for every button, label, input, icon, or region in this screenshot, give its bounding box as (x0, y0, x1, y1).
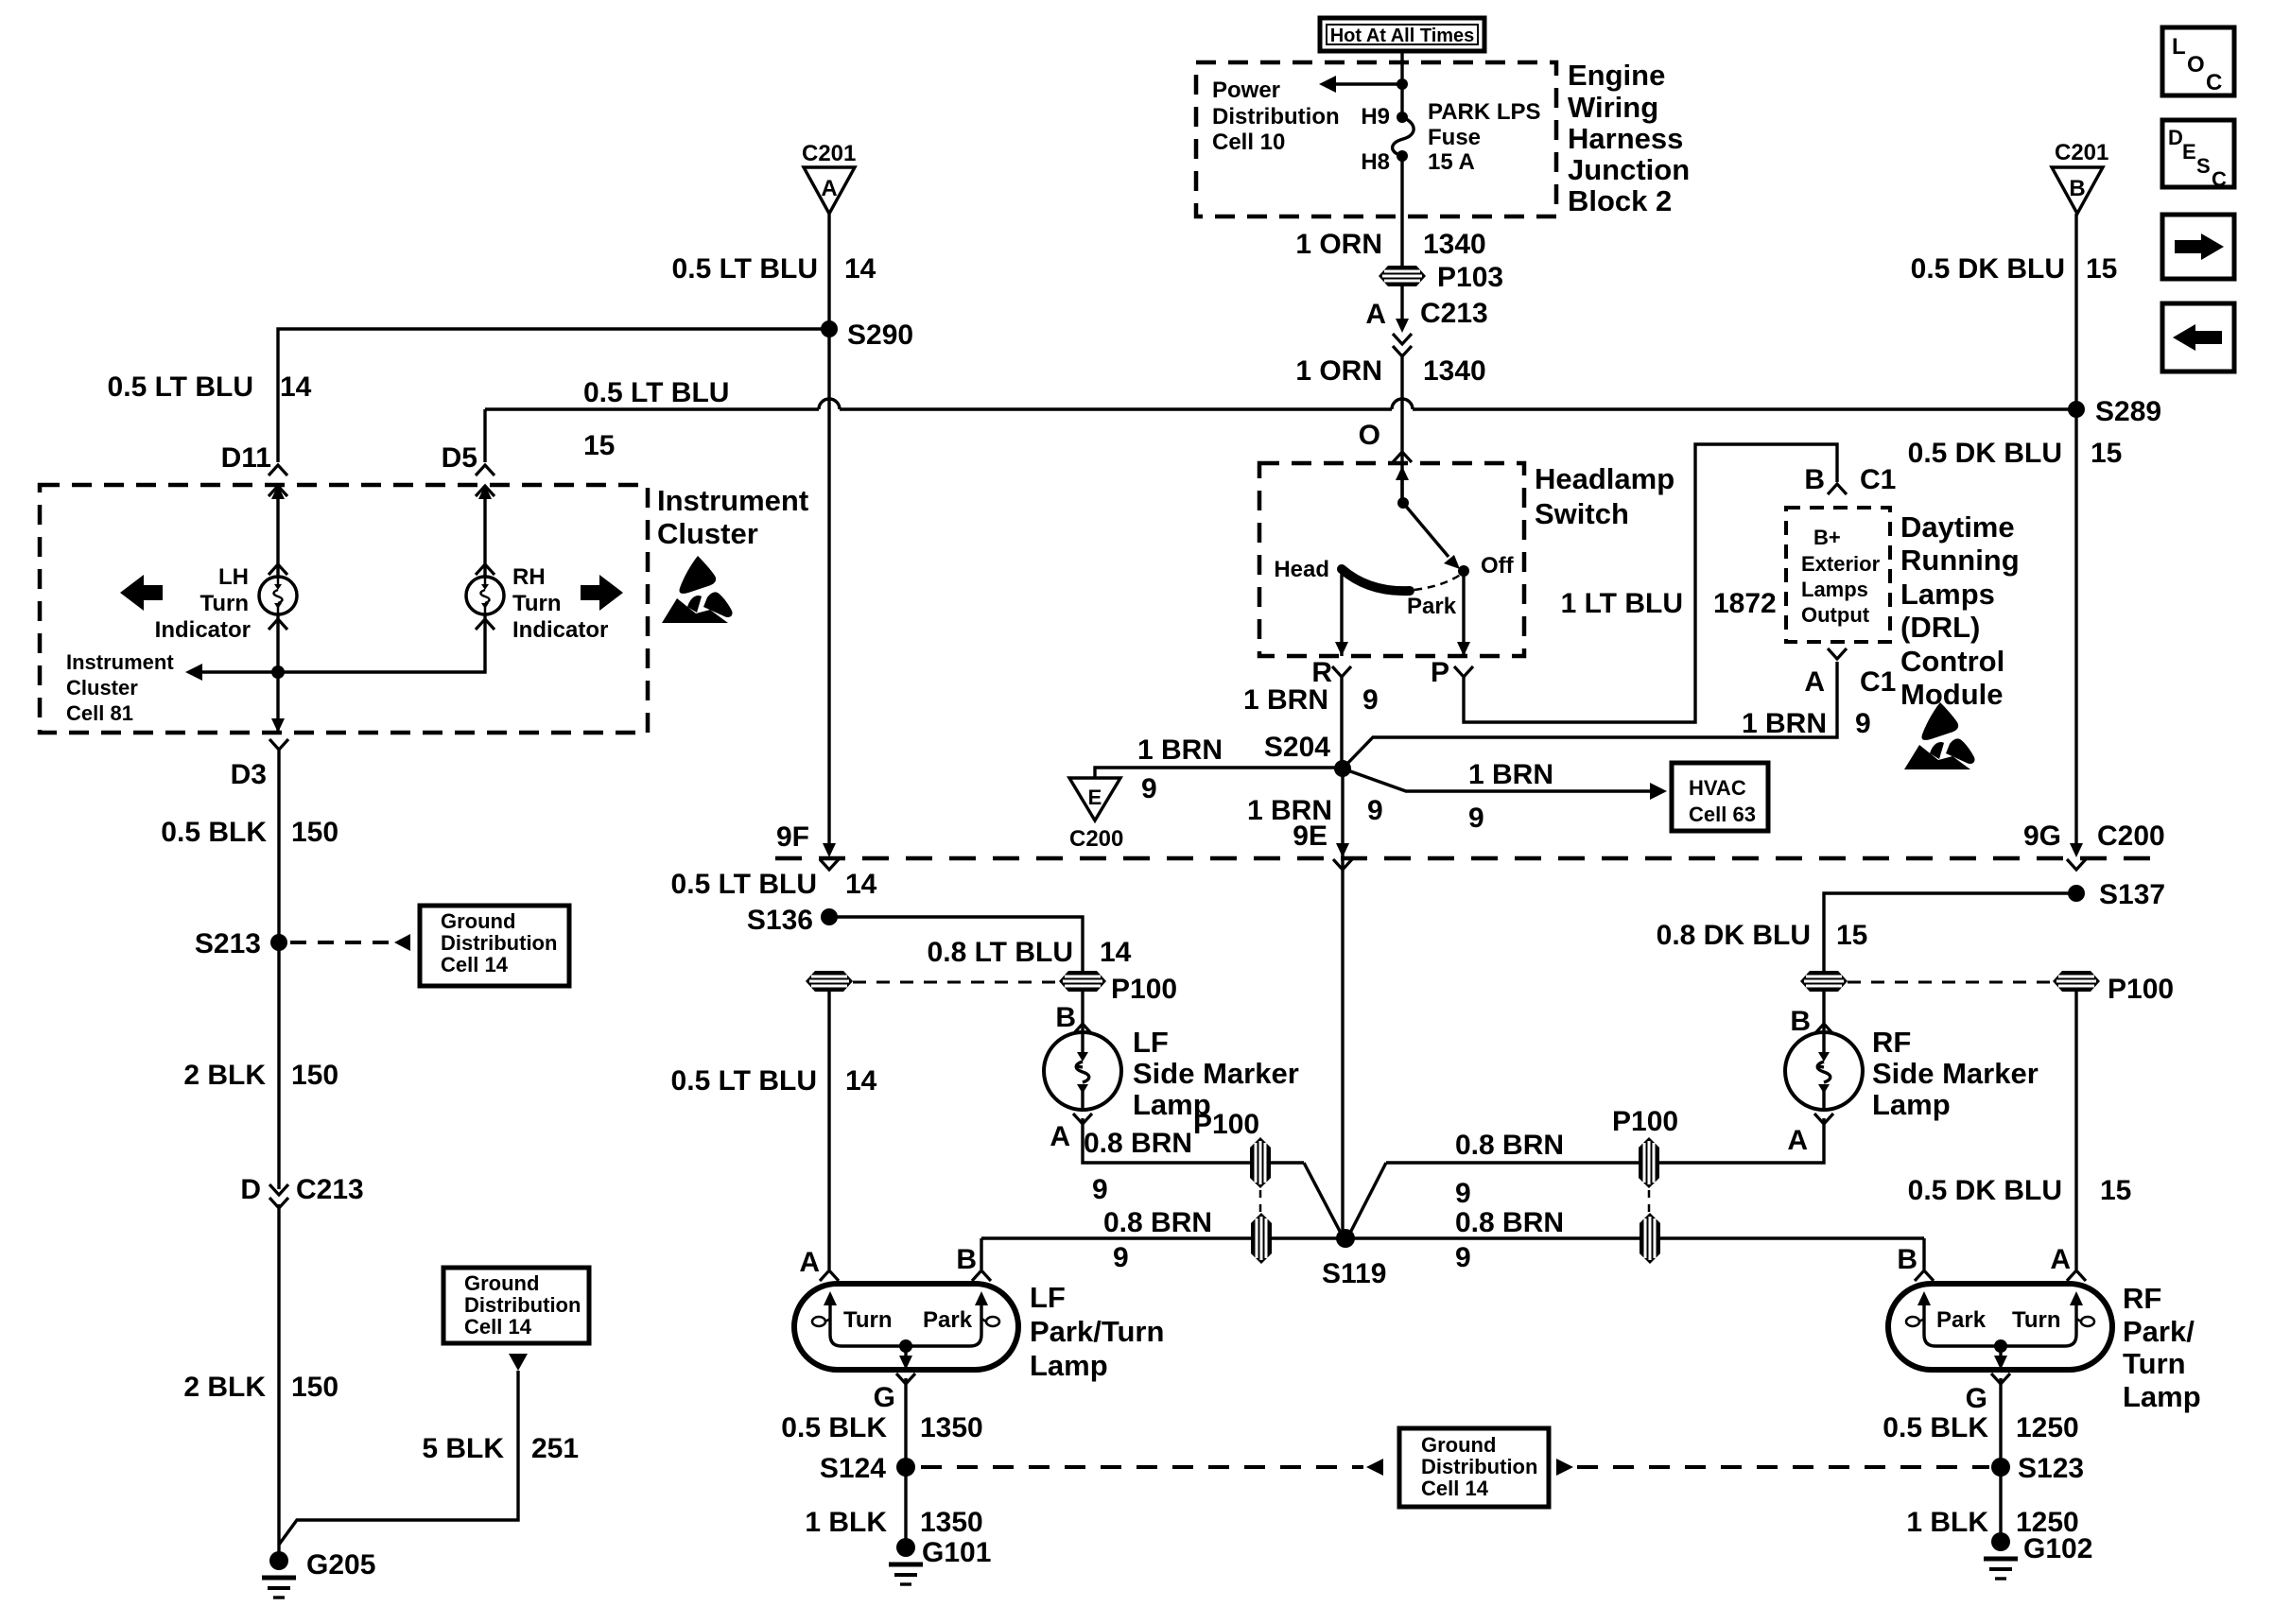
svg-text:D: D (2168, 126, 2183, 149)
svg-text:Lamp: Lamp (1872, 1088, 1951, 1121)
svg-text:Engine: Engine (1568, 59, 1665, 92)
wire: 1 BLK 1350 (904, 1467, 907, 1547)
internal circuit LF (812, 1291, 999, 1370)
arrow from ground cell box down (509, 1354, 528, 1371)
svg-text:C201: C201 (2055, 140, 2108, 165)
svg-text:Turn: Turn (2123, 1347, 2186, 1380)
connector E C200 (triangle) (1069, 778, 1123, 852)
wire: 0.5 BLK 1250 (1999, 1378, 2002, 1467)
wire: 1 BRN 9 arrow to HVAC (1343, 769, 1667, 800)
wire: diagonal into S119 (left) (1304, 1163, 1344, 1238)
dashed box: headlamp switch (1259, 463, 1524, 656)
svg-text:Head: Head (1274, 557, 1329, 582)
svg-text:A: A (799, 1247, 820, 1278)
svg-text:LF: LF (1030, 1281, 1066, 1314)
wire: main 0.5 DK BLU down to RF park/turn A (2074, 992, 2077, 1270)
thick left arrow (120, 575, 163, 611)
svg-text:B: B (1055, 1002, 1076, 1033)
svg-text:RF: RF (2123, 1282, 2161, 1315)
lamp: LH turn indicator (259, 577, 297, 614)
wire: 0.5 LT BLU 15 main horizontal (485, 399, 2076, 409)
legend box DESC (2162, 120, 2234, 191)
node: switch pivot (1397, 497, 1409, 509)
svg-text:Switch: Switch (1535, 497, 1629, 530)
wire: 1 BRN 9 from DRL A to S204 (1343, 662, 1837, 769)
svg-text:B: B (1804, 464, 1825, 495)
wire: 5 BLK 251 (279, 1371, 518, 1545)
svg-text:1 BLK: 1 BLK (805, 1507, 887, 1538)
svg-text:G: G (874, 1382, 895, 1413)
svg-text:0.8 DK BLU: 0.8 DK BLU (1657, 920, 1811, 951)
wire: 0.5 BLK 1350 (904, 1378, 907, 1467)
svg-text:Turn: Turn (200, 591, 249, 616)
svg-text:2 BLK: 2 BLK (183, 1060, 266, 1091)
dashed box: Engine Wiring Harness Junction Block 2 (1196, 62, 1556, 216)
svg-text:D11: D11 (221, 442, 271, 474)
svg-text:9: 9 (1455, 1242, 1471, 1273)
svg-text:1340: 1340 (1423, 355, 1486, 387)
svg-text:Park: Park (923, 1307, 973, 1333)
svg-text:A: A (1787, 1125, 1808, 1156)
wire: S290 to D11 branch (278, 329, 829, 462)
connector P100 (main 0.5 DK BLU) (2053, 971, 2100, 992)
svg-text:Turn: Turn (2012, 1307, 2061, 1333)
svg-text:A: A (2050, 1244, 2071, 1275)
legend box LOC (2162, 27, 2234, 95)
svg-text:Cluster: Cluster (66, 676, 138, 700)
svg-text:Lamp: Lamp (1030, 1349, 1108, 1382)
dashed link between P100 halves (853, 981, 1057, 984)
svg-text:RH: RH (512, 564, 546, 590)
svg-text:1250: 1250 (2016, 1412, 2079, 1443)
wire: arrow to Power Distribution (1319, 76, 1402, 93)
svg-text:Lamp: Lamp (2123, 1380, 2201, 1413)
svg-text:5 BLK: 5 BLK (422, 1433, 504, 1464)
fuse PARK LPS 15A (1393, 117, 1414, 156)
svg-text:LF: LF (1133, 1026, 1169, 1059)
dashed link between P100 halves (1848, 981, 2051, 984)
svg-text:0.5 DK BLU: 0.5 DK BLU (1911, 253, 2065, 285)
connector P100 upper right (1639, 1137, 1659, 1188)
node S123 (1991, 1458, 2010, 1477)
wire: diagonal into S119 (right) (1347, 1163, 1386, 1238)
node S290 (821, 320, 838, 337)
svg-text:Cell 63: Cell 63 (1689, 803, 1756, 826)
svg-text:Indicator: Indicator (512, 617, 608, 643)
lamp: RF park/turn (stadium) (1888, 1284, 2112, 1370)
svg-text:O: O (1359, 420, 1380, 451)
connector pin G (1991, 1373, 2010, 1384)
label: Daytime Running Lamps (DRL) Control Module (1900, 510, 2020, 711)
svg-text:14: 14 (280, 371, 312, 403)
svg-text:Cell 14: Cell 14 (441, 953, 509, 976)
svg-text:Turn: Turn (843, 1307, 893, 1333)
svg-text:C: C (2206, 70, 2222, 95)
svg-text:1 ORN: 1 ORN (1295, 355, 1382, 387)
svg-text:9: 9 (1468, 803, 1484, 834)
switch moving contact (1403, 503, 1449, 557)
svg-text:P100: P100 (1612, 1106, 1678, 1137)
dashed box: B+ Exterior Lamps Output (1786, 508, 1890, 642)
svg-text:14: 14 (845, 1065, 877, 1097)
svg-text:S124: S124 (820, 1453, 886, 1484)
connector P100 lower right (1640, 1213, 1660, 1264)
svg-text:Park: Park (1936, 1307, 1987, 1333)
dashed ground ref line (right) (1556, 1459, 1573, 1476)
wire: 0.8 BRN 9 from LF side marker (1083, 1118, 1304, 1163)
wire: S137 branch to RF side marker (1824, 893, 2076, 971)
svg-text:Distribution: Distribution (441, 931, 557, 955)
wire: 0.8 BRN 9 from RF side marker (1386, 1118, 1824, 1163)
wire: Head output R (1340, 571, 1343, 656)
svg-text:D3: D3 (231, 759, 267, 790)
svg-text:9: 9 (1362, 684, 1379, 716)
wire: lower 0.8 BRN 9 horizontal run (981, 1236, 1924, 1239)
svg-text:Instrument: Instrument (66, 650, 174, 674)
svg-text:Distribution: Distribution (1212, 104, 1340, 130)
svg-text:9: 9 (1855, 708, 1871, 739)
svg-text:Cell 10: Cell 10 (1212, 130, 1285, 155)
connector 9E crossing (1333, 843, 1352, 870)
svg-text:S137: S137 (2099, 879, 2165, 910)
svg-text:9F: 9F (776, 821, 809, 853)
svg-text:1340: 1340 (1423, 229, 1486, 260)
svg-text:15: 15 (2091, 438, 2122, 469)
wire: main 0.5 LT BLU down to LF park/turn A (827, 992, 830, 1270)
wire: 1 BRN 9 to E C200 (1095, 768, 1343, 778)
svg-text:HVAC: HVAC (1689, 776, 1746, 800)
node S289 (2068, 401, 2085, 418)
svg-text:S213: S213 (195, 928, 261, 959)
connector C201 half B (2052, 140, 2108, 214)
connector C213 pin D (240, 1174, 363, 1208)
svg-text:Instrument: Instrument (657, 484, 808, 517)
svg-text:Output: Output (1801, 603, 1870, 627)
wire: 1 BLK 1250 (1999, 1467, 2002, 1542)
connector C201 half A (802, 141, 856, 214)
svg-text:P103: P103 (1437, 262, 1503, 293)
svg-text:Power: Power (1212, 78, 1280, 103)
wire: D5 stub (483, 409, 486, 462)
svg-text:P100: P100 (2108, 974, 2174, 1005)
svg-text:Fuse: Fuse (1428, 125, 1481, 150)
svg-text:P100: P100 (1111, 974, 1177, 1005)
node: cluster junction (271, 665, 285, 679)
svg-text:0.5 DK BLU: 0.5 DK BLU (1908, 1175, 2062, 1206)
svg-text:G205: G205 (306, 1549, 375, 1581)
svg-text:1350: 1350 (920, 1412, 983, 1443)
ground G102 (1984, 1532, 2018, 1579)
svg-text:S119: S119 (1322, 1258, 1386, 1289)
label: Power Distribution Cell 10 (1212, 78, 1340, 155)
svg-text:S289: S289 (2095, 396, 2161, 427)
svg-text:0.5 LT BLU: 0.5 LT BLU (108, 371, 253, 403)
connector pin A below lamp (1814, 1114, 1833, 1124)
node S136 (821, 908, 838, 925)
wire: 2 BLK 150 to G205 (277, 1204, 280, 1561)
connector D11 (221, 442, 287, 499)
svg-text:Side Marker: Side Marker (1872, 1057, 2039, 1090)
wire: 0.5 BLK 150 (277, 750, 280, 942)
connector pin A below lamp (1073, 1114, 1092, 1124)
svg-text:Hot At All Times: Hot At All Times (1330, 26, 1475, 46)
svg-text:S123: S123 (2018, 1453, 2084, 1484)
svg-text:C213: C213 (1420, 298, 1488, 329)
wire: 0.5 DK BLU 15 from C201-B (2074, 214, 2077, 844)
svg-text:9G: 9G (2023, 821, 2061, 852)
svg-text:15 A: 15 A (1428, 149, 1475, 175)
svg-text:Park: Park (1407, 594, 1457, 619)
label box: HVAC Cell 63 (1672, 763, 1768, 831)
svg-text:0.5 BLK: 0.5 BLK (161, 817, 267, 848)
svg-text:PARK LPS: PARK LPS (1428, 99, 1541, 125)
connector pin B C1 (1804, 464, 1896, 495)
node: H8 terminal (1397, 150, 1408, 162)
svg-text:S290: S290 (847, 320, 913, 351)
svg-text:O: O (2187, 52, 2205, 78)
label: Engine Wiring Harness Junction Block 2 (1568, 59, 1690, 217)
wire: into switch common (1400, 470, 1403, 503)
svg-text:Harness: Harness (1568, 122, 1683, 155)
svg-text:C1: C1 (1860, 666, 1896, 698)
svg-text:150: 150 (291, 1060, 338, 1091)
svg-text:Cell 14: Cell 14 (1421, 1477, 1489, 1500)
svg-text:Off: Off (1481, 553, 1515, 579)
svg-text:Ground: Ground (441, 909, 515, 933)
svg-text:Ground: Ground (464, 1271, 539, 1295)
svg-text:D: D (240, 1174, 261, 1205)
connector P100 lower left (1251, 1213, 1272, 1264)
svg-text:A: A (1050, 1121, 1070, 1152)
ESD symbol (instrument cluster) (662, 556, 733, 623)
legend box right arrow (2162, 215, 2234, 279)
svg-text:15: 15 (1836, 920, 1867, 951)
connector C213 pin A (1365, 298, 1487, 356)
svg-text:L: L (2172, 34, 2186, 60)
svg-text:Headlamp: Headlamp (1535, 462, 1674, 495)
svg-text:9: 9 (1141, 773, 1157, 804)
svg-text:Cell 14: Cell 14 (464, 1315, 532, 1339)
svg-text:1 BRN: 1 BRN (1468, 759, 1553, 790)
legend box left arrow (2162, 303, 2234, 371)
svg-text:9: 9 (1092, 1174, 1108, 1205)
svg-text:1 BLK: 1 BLK (1906, 1507, 1988, 1538)
label box: Ground Distribution Cell 14 (bottom middle) (1399, 1428, 1549, 1507)
switch wiper thick arc (Head position) (1342, 569, 1410, 591)
svg-text:P100: P100 (1193, 1109, 1259, 1140)
svg-text:14: 14 (845, 869, 877, 900)
svg-text:1 BRN: 1 BRN (1742, 708, 1827, 739)
svg-text:A: A (1365, 299, 1386, 330)
lamp: LF side marker (1044, 1032, 1121, 1110)
svg-text:C1: C1 (1860, 464, 1896, 495)
svg-text:0.5 DK BLU: 0.5 DK BLU (1908, 438, 2062, 469)
connector P100 (RF side marker feed) (1800, 971, 1848, 992)
svg-text:S136: S136 (747, 905, 813, 936)
svg-text:0.8 BRN: 0.8 BRN (1103, 1207, 1212, 1238)
svg-text:1 LT BLU: 1 LT BLU (1561, 588, 1683, 619)
label box: Hot At All Times (1320, 18, 1484, 51)
svg-text:S: S (2196, 154, 2211, 178)
svg-text:9E: 9E (1293, 821, 1327, 852)
node S137 (2068, 885, 2085, 902)
svg-text:0.8 LT BLU: 0.8 LT BLU (928, 937, 1073, 968)
label box: Ground Distribution Cell 14 (lower left) (443, 1268, 589, 1343)
svg-text:150: 150 (291, 817, 338, 848)
connector D5 (442, 442, 495, 499)
connector pin G (896, 1373, 915, 1384)
wire: S136 branch to LF side marker (829, 917, 1083, 971)
lamp: RH turn indicator (466, 577, 504, 614)
svg-text:0.8 BRN: 0.8 BRN (1455, 1130, 1564, 1161)
svg-text:Distribution: Distribution (464, 1293, 581, 1317)
wire: 1 ORN below C213 (1400, 354, 1403, 503)
svg-text:B: B (2069, 176, 2085, 201)
dashed ref line to ground cell (290, 941, 391, 944)
wire: LH indicator feed (276, 495, 279, 577)
svg-text:0.5 LT BLU: 0.5 LT BLU (671, 869, 817, 900)
svg-text:9: 9 (1455, 1178, 1471, 1209)
svg-text:Control: Control (1900, 645, 2004, 678)
lamp: RF side marker (1785, 1032, 1863, 1110)
svg-text:Daytime: Daytime (1900, 510, 2015, 544)
svg-text:Indicator: Indicator (155, 617, 251, 643)
node: H9 terminal (1397, 112, 1408, 123)
svg-text:B: B (1897, 1244, 1917, 1275)
wire: LF side marker pin B (1081, 992, 1084, 1032)
ground G205 (262, 1551, 296, 1598)
wire: 2 BLK 150 (277, 942, 280, 1189)
connector P100 (main 0.5 LT BLU) (806, 971, 853, 992)
svg-text:C200: C200 (1069, 826, 1123, 852)
node S204 (1334, 760, 1351, 777)
internal circuit RF (1906, 1291, 2094, 1370)
svg-text:Side Marker: Side Marker (1133, 1057, 1299, 1090)
svg-text:S204: S204 (1264, 732, 1330, 763)
wire: below P103 (1400, 286, 1403, 321)
svg-text:1872: 1872 (1713, 588, 1777, 619)
svg-text:0.5 BLK: 0.5 BLK (1883, 1412, 1988, 1443)
connector D3 exit (231, 718, 288, 790)
svg-text:15: 15 (583, 430, 615, 461)
svg-text:Turn: Turn (512, 591, 562, 616)
connector P103 (1379, 266, 1426, 286)
svg-text:1 ORN: 1 ORN (1295, 229, 1382, 260)
connector 9G (2023, 821, 2165, 870)
ESD symbol (DRL module) (1904, 702, 1975, 769)
wire: RF side marker pin B (1822, 992, 1825, 1032)
svg-text:9: 9 (1113, 1242, 1129, 1273)
svg-text:Block 2: Block 2 (1568, 184, 1672, 217)
dashed travel arc to Off (1414, 574, 1462, 590)
svg-text:2 BLK: 2 BLK (183, 1372, 266, 1403)
node S213 (270, 934, 287, 951)
wire: Off/Park output P (1462, 571, 1465, 656)
connector 9F (776, 821, 839, 870)
svg-text:E: E (2182, 140, 2196, 164)
wire: R down to S204 (1340, 677, 1343, 769)
wire: 1 BRN 9E down from S204 (1341, 769, 1344, 1238)
svg-text:C213: C213 (296, 1174, 364, 1205)
wire: fuse output down (1400, 156, 1403, 266)
wire: battery feed from Hot box (1400, 51, 1403, 117)
svg-text:Lamps: Lamps (1900, 578, 1995, 611)
svg-text:B: B (1790, 1006, 1811, 1037)
svg-text:Junction: Junction (1568, 153, 1690, 186)
wire: P to DRL pin B (1 LT BLU 1872) (1464, 444, 1837, 722)
wire: B feed corner (980, 1238, 982, 1270)
svg-text:1 BRN: 1 BRN (1137, 734, 1223, 766)
svg-text:1350: 1350 (920, 1507, 983, 1538)
svg-text:Cluster: Cluster (657, 517, 758, 550)
svg-text:0.8 BRN: 0.8 BRN (1455, 1207, 1564, 1238)
dashed box: instrument cluster (40, 485, 648, 733)
svg-text:Distribution: Distribution (1421, 1455, 1537, 1478)
svg-text:RF: RF (1872, 1026, 1911, 1059)
svg-text:G101: G101 (922, 1537, 991, 1568)
svg-text:B: B (956, 1244, 977, 1275)
svg-text:G: G (1966, 1383, 1987, 1414)
svg-text:9: 9 (1367, 795, 1383, 826)
thick right arrow (581, 575, 623, 611)
svg-text:Lamps: Lamps (1801, 578, 1868, 601)
svg-text:(DRL): (DRL) (1900, 611, 1980, 644)
svg-text:0.5 LT BLU: 0.5 LT BLU (671, 1065, 817, 1097)
svg-text:15: 15 (2100, 1175, 2131, 1206)
svg-text:0.5 LT BLU: 0.5 LT BLU (672, 253, 818, 285)
svg-text:A: A (1804, 666, 1825, 698)
svg-text:Running: Running (1900, 544, 2020, 577)
svg-text:Exterior: Exterior (1801, 552, 1881, 576)
wire: 0.5 LT BLU 14 from C201-A (827, 214, 830, 844)
svg-text:Cell 81: Cell 81 (66, 701, 133, 725)
node: Off terminal (1458, 565, 1469, 577)
label: PARK LPS Fuse 15 A (1428, 99, 1541, 175)
dashed ground ref line (left) (921, 1465, 1363, 1469)
svg-text:P: P (1431, 657, 1449, 688)
wire: arrow to Instrument Cluster Cell 81 (185, 664, 278, 681)
svg-text:Park/: Park/ (2123, 1315, 2195, 1348)
svg-text:H8: H8 (1361, 149, 1390, 175)
svg-text:Module: Module (1900, 678, 2004, 711)
svg-text:0.5 LT BLU: 0.5 LT BLU (583, 377, 729, 408)
connector P100 upper left (1250, 1137, 1271, 1188)
node: junction to power distribution (1397, 78, 1408, 90)
wire: RH feed from D5 (483, 495, 486, 577)
connector P100 (LF side marker feed) (1059, 971, 1106, 992)
lamp: LF park/turn (stadium) (794, 1284, 1018, 1370)
svg-text:LH: LH (218, 564, 249, 590)
svg-text:C: C (2212, 167, 2227, 191)
svg-text:C200: C200 (2097, 821, 2165, 852)
svg-text:D5: D5 (442, 442, 477, 474)
svg-text:150: 150 (291, 1372, 338, 1403)
label box: Ground Distribution Cell 14 (upper) (420, 906, 569, 986)
node S119 (1336, 1229, 1355, 1248)
svg-text:1 BRN: 1 BRN (1243, 684, 1328, 716)
wire: RH indicator branch (278, 614, 485, 672)
wire: below LH lamp (276, 614, 279, 733)
ground G101 (889, 1538, 923, 1584)
svg-text:Ground: Ground (1421, 1433, 1496, 1457)
svg-text:B+: B+ (1813, 526, 1841, 549)
svg-text:14: 14 (844, 253, 876, 285)
svg-text:C201: C201 (802, 141, 856, 166)
wire: B feed corner (1922, 1238, 1925, 1270)
svg-text:G102: G102 (2023, 1533, 2092, 1564)
svg-text:0.8 BRN: 0.8 BRN (1084, 1128, 1192, 1159)
connector pin A C1 (1804, 648, 1896, 698)
